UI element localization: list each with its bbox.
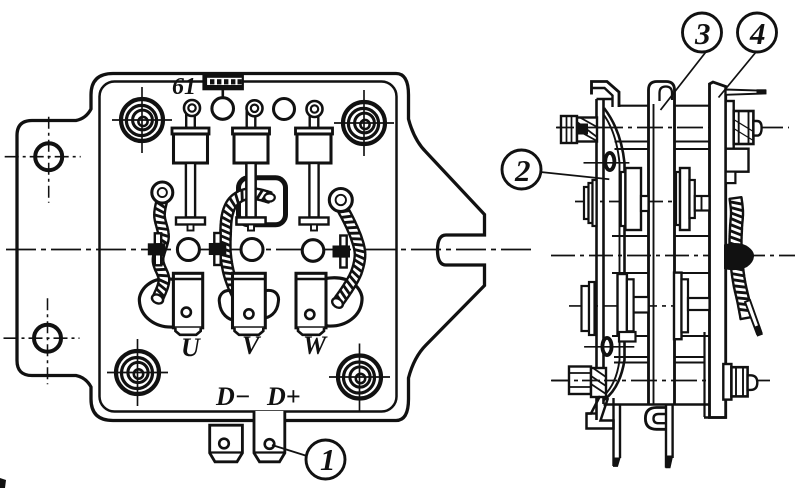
upper boss on left plate: [584, 180, 597, 226]
diode W (top row): [296, 101, 333, 231]
hole mid row 2: [241, 239, 263, 261]
rivet bottom-right: [329, 344, 390, 411]
plate rivet hole lower (oval): [602, 338, 611, 355]
terminal lug W lobe: [298, 278, 362, 326]
side view axis centerline: [551, 255, 795, 257]
plain hole top row: [274, 99, 295, 120]
centerline over bottom-left screw: [552, 380, 606, 382]
wire clamp U: [148, 233, 166, 265]
block below lower boss: [619, 332, 636, 342]
svg-text:D−: D−: [215, 382, 251, 411]
scan mark bottom-left corner: [0, 478, 6, 488]
upper diode row centerline: [575, 201, 716, 203]
callout 1 circle: [306, 440, 345, 479]
leg D+ (side view): [666, 405, 673, 468]
svg-text:3: 3: [694, 16, 711, 51]
hole mid row 3: [302, 240, 324, 262]
lower diode boss (plate 4): [674, 273, 710, 340]
diode V (top row): [233, 100, 270, 230]
callout 4 circle: [738, 13, 777, 52]
wire U eyelet ring: [152, 182, 173, 203]
svg-text:4: 4: [749, 16, 766, 51]
ear hole 1 crosshair: [5, 117, 81, 203]
hole mid row 1: [177, 239, 199, 261]
plate inner contour line: [100, 82, 397, 412]
wire clamp V: [209, 233, 227, 265]
wire W eyelet ring: [329, 189, 352, 212]
field wire U (braided): [153, 199, 170, 301]
wire V end cap: [264, 194, 275, 202]
terminal blade V: [233, 273, 266, 335]
screw top-left: [561, 116, 597, 143]
ear hole 2 crosshair: [4, 298, 80, 384]
lower boss on left plate: [582, 282, 595, 335]
flat pin top-right: [726, 90, 766, 95]
lower oval center mark: [584, 346, 634, 348]
callout 2 leader: [541, 172, 610, 179]
insulating plate (3): [649, 82, 675, 405]
mounting plate outline (front view): [17, 74, 485, 421]
upper diode boss (plate 4): [676, 168, 710, 230]
ear hole 1: [35, 143, 62, 170]
rivet bottom-left: [107, 339, 168, 406]
block under nut: [726, 149, 749, 172]
svg-text:U: U: [181, 333, 201, 362]
svg-text:61: 61: [172, 74, 196, 100]
upper oval center mark: [584, 162, 630, 164]
screw bottom-left: [569, 367, 606, 398]
callout 2 circle: [502, 150, 541, 189]
blade D+: [254, 411, 285, 462]
left plate foot: [587, 396, 614, 429]
blade D-: [210, 425, 243, 462]
wire V retaining staple: [239, 178, 286, 225]
hole below terminal 61: [212, 98, 234, 120]
field wire V (braided): [220, 189, 271, 305]
bracket top-left: [592, 82, 620, 108]
svg-text:D+: D+: [266, 382, 301, 411]
nut and bolt bottom-right: [723, 364, 757, 400]
terminal blade W: [296, 273, 326, 335]
plate rivet hole upper (oval): [605, 153, 614, 170]
terminal 61 blade: [204, 75, 243, 90]
hook bracket on leg: [645, 408, 666, 430]
plate 4 lower-left double edge: [703, 332, 705, 417]
lower bolt centerline: [551, 380, 770, 382]
rivet top-right: [334, 90, 394, 156]
svg-text:2: 2: [514, 153, 531, 188]
left plate (2) body: [597, 99, 625, 420]
terminal blade U: [173, 273, 202, 335]
callout 3 leader: [661, 51, 708, 111]
callout 4 leader: [719, 52, 757, 98]
wire end (side view): [745, 300, 762, 334]
lower diode boss (plate 3): [618, 274, 649, 335]
upper diode boss (plate 3): [621, 168, 649, 230]
centerline over top-left screw: [556, 127, 600, 129]
upper stud facet: [701, 196, 703, 211]
frame lines between plates: [604, 106, 710, 405]
svg-text:V: V: [242, 331, 262, 360]
upper bolt centerline: [557, 127, 789, 129]
plate 4 bottom edge: [704, 416, 726, 419]
rivet dome (black): [724, 243, 754, 270]
field wire (side view, braided): [730, 197, 753, 319]
terminal lug U lobe: [139, 279, 203, 327]
rivet top-left: [112, 87, 172, 153]
terminal 61 lead: [222, 89, 225, 98]
callout 1 leader: [272, 445, 307, 456]
nut and bolt top-right: [726, 101, 762, 149]
terminal lug V lobes: [219, 290, 234, 320]
contact plate (4): [710, 82, 726, 418]
diode U (top row): [172, 100, 209, 231]
ear hole 2: [34, 325, 61, 352]
diode V stem over staple: [246, 163, 255, 218]
wire clamp W: [333, 236, 351, 268]
front view horizontal centerline: [6, 249, 533, 251]
lower diode row centerline: [569, 305, 707, 307]
svg-text:1: 1: [320, 442, 336, 477]
field wire W (braided): [333, 205, 365, 307]
leg D- (side view): [614, 398, 621, 466]
svg-text:W: W: [303, 331, 328, 360]
callout 3 circle: [683, 13, 722, 52]
